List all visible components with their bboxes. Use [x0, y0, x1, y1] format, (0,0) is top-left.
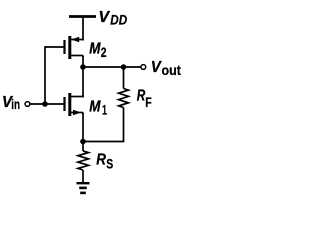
wire output node to M1 drain: [82, 67, 84, 97]
label Vin: [2, 94, 20, 112]
svg-text:M: M: [89, 98, 101, 115]
svg-text:DD: DD: [110, 11, 127, 27]
transistor M2 (PMOS): [65, 36, 84, 59]
resistor RS: [78, 142, 89, 183]
svg-text:V: V: [99, 9, 111, 26]
label RF: [137, 88, 152, 110]
svg-text:2: 2: [101, 44, 107, 60]
ground: [77, 183, 90, 193]
transistor M1 (NMOS): [65, 93, 84, 116]
junction dot Vin node: [42, 101, 48, 107]
label Vout: [151, 59, 182, 78]
wire M2 drain to output node: [82, 56, 84, 68]
label RS: [96, 151, 113, 171]
wire Vin to M1 gate: [30, 103, 64, 105]
terminal Vin: [25, 102, 30, 107]
wire RF bottom to source node: [83, 141, 124, 143]
svg-text:1: 1: [102, 101, 107, 117]
terminal Vout: [141, 65, 146, 70]
svg-text:S: S: [106, 155, 113, 171]
wire output node to Vout terminal: [83, 66, 141, 68]
wire VDD to M2 source: [82, 17, 84, 41]
svg-text:out: out: [162, 63, 182, 78]
label VDD: [99, 9, 128, 27]
svg-text:in: in: [11, 97, 20, 112]
wire M2 gate to Vin node: [45, 46, 64, 104]
junction dot output node (M2 drain / M1 drain / RF / Vout): [80, 64, 86, 70]
junction dot source node (M1 source / RF / RS): [80, 139, 86, 145]
junction dot RF top: [121, 64, 127, 70]
svg-text:R: R: [96, 151, 106, 168]
power rail VDD symbol: [69, 15, 96, 18]
wire M1 source to source node: [82, 113, 84, 142]
resistor RF: [119, 67, 129, 142]
svg-text:R: R: [137, 88, 146, 105]
svg-text:M: M: [89, 40, 101, 57]
label M1: [89, 98, 107, 117]
svg-text:F: F: [145, 94, 152, 110]
label M2: [89, 40, 106, 60]
svg-text:V: V: [151, 59, 162, 76]
